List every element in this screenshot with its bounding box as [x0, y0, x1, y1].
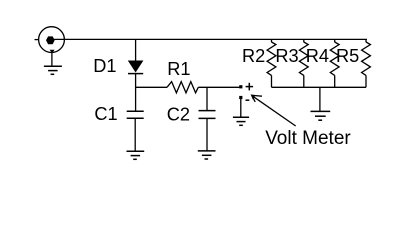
svg-text:C2: C2: [167, 104, 190, 124]
svg-text:R4: R4: [306, 46, 329, 66]
svg-text:R5: R5: [336, 46, 359, 66]
svg-text:C1: C1: [94, 104, 117, 124]
svg-text:D1: D1: [93, 56, 116, 76]
svg-text:Volt Meter: Volt Meter: [265, 128, 351, 149]
svg-text:R3: R3: [275, 46, 298, 66]
svg-text:R1: R1: [167, 59, 190, 79]
svg-text:R2: R2: [242, 46, 265, 66]
